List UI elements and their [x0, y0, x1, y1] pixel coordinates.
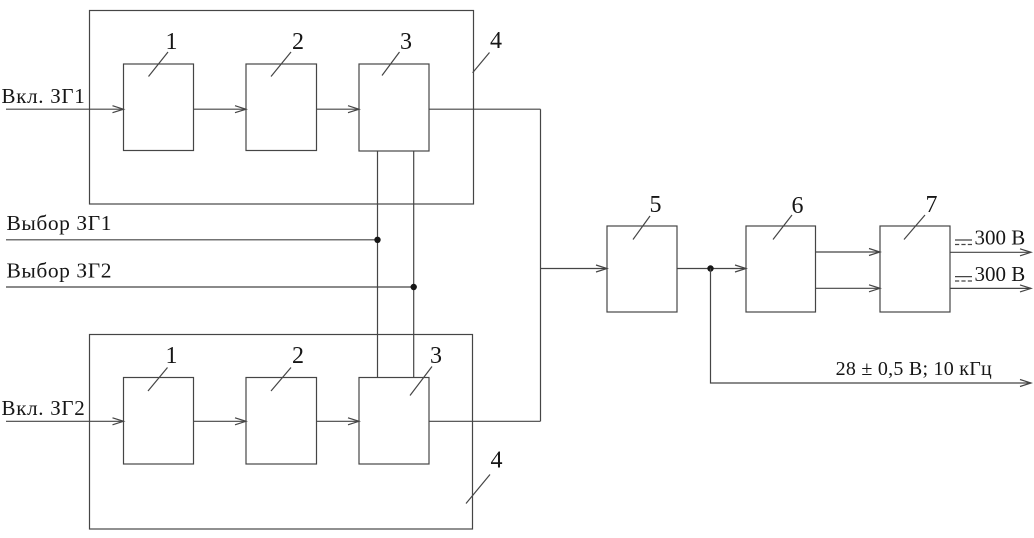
- svg-text:4: 4: [490, 28, 502, 54]
- svg-text:28 ± 0,5 В; 10 кГц: 28 ± 0,5 В; 10 кГц: [836, 358, 992, 380]
- wire Выбор ЗГ1: [6, 239, 378, 241]
- arrowhead into block 7 lower: [869, 285, 880, 292]
- svg-text:300 В: 300 В: [975, 225, 1026, 249]
- block 5: [607, 226, 677, 312]
- svg-text:3: 3: [400, 29, 412, 55]
- svg-text:Вкл. ЗГ1: Вкл. ЗГ1: [2, 84, 86, 108]
- block 1 (bottom): [124, 378, 194, 465]
- DC symbol lower solid bar: [955, 276, 972, 278]
- leader line for label 4 (top): [473, 53, 490, 73]
- wire Вкл. ЗГ2 into block 1: [6, 420, 124, 422]
- output wire 300 V lower: [950, 287, 1031, 289]
- arrowhead into block 2 (bottom): [235, 418, 246, 425]
- leader line for label 3 (bottom): [410, 367, 432, 396]
- DC symbol lower dashed bar: [955, 280, 972, 282]
- wire Выбор ЗГ2: [6, 286, 414, 288]
- svg-text:Выбор ЗГ2: Выбор ЗГ2: [7, 259, 113, 283]
- arrowhead output lower: [1020, 285, 1031, 292]
- svg-text:6: 6: [792, 193, 804, 219]
- block 2 (top): [246, 64, 317, 151]
- leader line for label 3 (top): [382, 52, 400, 76]
- wire block3 (top) output to trunk: [429, 108, 541, 110]
- wire block6 to block7 upper: [816, 251, 881, 253]
- wire trunk to block 5: [541, 268, 608, 270]
- svg-text:1: 1: [166, 29, 178, 55]
- wire block5 to block6: [677, 268, 746, 270]
- arrowhead into block 1 (top): [113, 106, 124, 113]
- leader line for label 7: [904, 215, 925, 240]
- arrowhead output upper: [1020, 249, 1031, 256]
- output wire 300 V upper: [950, 251, 1031, 253]
- block 2 (bottom): [246, 378, 317, 465]
- wire Вкл. ЗГ1 into block 1: [6, 108, 124, 110]
- arrowhead into block 7 upper: [869, 249, 880, 256]
- svg-text:2: 2: [292, 29, 304, 55]
- arrowhead into block 6: [735, 265, 746, 272]
- svg-text:3: 3: [430, 343, 442, 369]
- leader line for label 1 (top): [149, 52, 169, 77]
- leader line for label 6: [773, 215, 792, 240]
- leader line for label 1 (bottom): [148, 368, 168, 392]
- arrowhead into block 5: [596, 265, 607, 272]
- wire block2 to block3 (bottom): [317, 420, 360, 422]
- svg-text:7: 7: [926, 192, 938, 218]
- group box 4 (top channel ЗГ1): [90, 11, 474, 205]
- arrowhead into block 1 (bottom): [113, 418, 124, 425]
- wire block1 to block2 (bottom): [194, 420, 247, 422]
- leader line for label 2 (bottom): [271, 368, 291, 392]
- arrowhead into block 2 (top): [235, 106, 246, 113]
- svg-text:2: 2: [292, 343, 304, 369]
- DC symbol upper solid bar: [955, 239, 972, 241]
- wire select ЗГ1 vertical: [377, 151, 379, 378]
- wire block3 (bottom) output to trunk: [429, 420, 541, 422]
- arrowhead into block 3 (bottom): [348, 418, 359, 425]
- svg-text:Выбор ЗГ1: Выбор ЗГ1: [7, 211, 113, 235]
- group box 4 (bottom channel ЗГ2): [90, 335, 473, 530]
- wire block6 to block7 lower: [816, 287, 881, 289]
- svg-text:5: 5: [650, 192, 662, 218]
- block 7: [880, 226, 950, 312]
- wire select ЗГ2 vertical: [413, 151, 415, 378]
- block 6: [746, 226, 816, 312]
- block 3 (top): [359, 64, 429, 151]
- DC symbol upper dashed bar: [955, 244, 972, 246]
- svg-text:Вкл. ЗГ2: Вкл. ЗГ2: [2, 396, 86, 420]
- junction dot Выбор ЗГ1: [374, 237, 380, 243]
- wire block2 to block3 (top): [317, 108, 360, 110]
- wire junction down to 28V output: [711, 269, 1032, 384]
- leader line for label 4 (bottom): [466, 475, 490, 504]
- arrowhead into block 3 (top): [348, 106, 359, 113]
- svg-text:1: 1: [166, 343, 178, 369]
- block 3 (bottom): [359, 378, 429, 465]
- wire block1 to block2 (top): [194, 108, 247, 110]
- trunk vertical wire joining both channels: [540, 109, 542, 421]
- svg-text:300 В: 300 В: [975, 262, 1026, 286]
- arrowhead 28V output: [1020, 380, 1031, 387]
- junction dot Выбор ЗГ2: [411, 284, 417, 290]
- leader line for label 2 (top): [271, 52, 291, 77]
- block 1 (top): [124, 64, 194, 151]
- junction dot after block 5: [707, 265, 713, 271]
- svg-text:4: 4: [491, 448, 503, 474]
- leader line for label 5: [633, 216, 650, 240]
